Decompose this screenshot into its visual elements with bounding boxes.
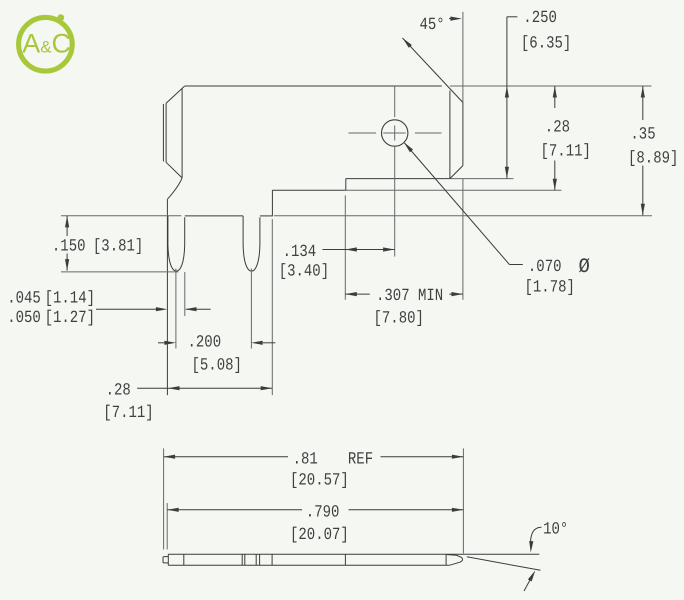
- right edge: [462, 103, 464, 166]
- left edge / .28 ext: [166, 199, 168, 395]
- svg-text:[7.11]: [7.11]: [541, 142, 591, 162]
- shoulder ext left (.150 top): [61, 215, 181, 217]
- .134 left arrow: [345, 247, 357, 251]
- hole leader arrow: [404, 142, 413, 152]
- hole centerline horizontal c: [415, 132, 442, 134]
- .045 right-point arrow: [156, 307, 168, 311]
- .35 dim lower: [642, 166, 644, 216]
- .28 right ext: [271, 219, 273, 395]
- side view tip bend line: [445, 554, 447, 565]
- .790 dim right seg: [349, 509, 464, 511]
- svg-text:.28: .28: [545, 118, 570, 138]
- svg-text:.81: .81: [293, 450, 318, 470]
- 45 arrow tail: [449, 18, 456, 20]
- hole centerline vertical a: [394, 86, 396, 117]
- .150 down arrow: [65, 259, 69, 271]
- .045 leader: [96, 308, 156, 310]
- top edge: [185, 85, 442, 87]
- right edge ext up: [462, 12, 464, 103]
- right bend line: [449, 91, 451, 178]
- right edge ext down: [462, 178, 464, 299]
- .81 dim right seg: [381, 456, 464, 458]
- leg 1 tapered prong: [168, 216, 185, 271]
- left S-curve neck: [167, 178, 182, 199]
- logo dot: [57, 14, 64, 21]
- side view bend line 6: [271, 554, 273, 565]
- svg-text:[3.81]: [3.81]: [93, 237, 143, 257]
- svg-text:.28: .28: [106, 381, 131, 401]
- 10deg angled line: [467, 557, 541, 571]
- svg-text:.250: .250: [523, 9, 557, 29]
- .045 second arrow tail: [186, 308, 211, 310]
- 10deg down arrow: [529, 541, 533, 553]
- .200 right-point arrow: [164, 341, 176, 345]
- .28t down arrow: [553, 179, 557, 191]
- step ext down: [344, 195, 346, 299]
- 10deg lower arrow tail: [524, 575, 533, 592]
- svg-text:.070: .070: [528, 257, 562, 277]
- top-left chamfer: [166, 86, 185, 103]
- side view bend line 7: [344, 554, 346, 565]
- svg-text:45°: 45°: [420, 15, 445, 35]
- side view bend line 2: [241, 554, 243, 565]
- .250 up arrow: [505, 86, 509, 98]
- svg-text:.045: .045: [7, 289, 41, 309]
- svg-text:[1.78]: [1.78]: [525, 278, 575, 298]
- hole centerline horizontal a: [348, 132, 376, 134]
- .28t up arrow: [553, 86, 557, 98]
- .790 right arrow: [452, 508, 464, 512]
- svg-text:[7.80]: [7.80]: [374, 309, 424, 329]
- .150 dim line lower: [66, 254, 68, 271]
- side view bottom edge: [168, 564, 449, 566]
- hole centerline vertical c: [394, 146, 396, 257]
- svg-text:[6.35]: [6.35]: [521, 34, 571, 54]
- svg-text:.134: .134: [283, 243, 317, 263]
- shoulder ext right (.35 bottom): [274, 215, 652, 217]
- .35 down arrow: [641, 204, 645, 216]
- side view left cap: [167, 554, 169, 565]
- svg-text:[7.11]: [7.11]: [103, 404, 153, 424]
- hole leader horizontal: [509, 264, 522, 266]
- side view bend line 5: [259, 554, 261, 565]
- logo A&C circle: [19, 17, 73, 71]
- .045 left-point arrow: [185, 307, 197, 311]
- svg-text:[20.57]: [20.57]: [290, 471, 349, 491]
- .150 up arrow: [65, 216, 69, 228]
- side view bend line 3: [244, 554, 246, 565]
- leg 2 tapered prong: [243, 216, 260, 271]
- corner vertical: [271, 190, 273, 216]
- leg1 slit ext: [175, 269, 177, 349]
- .307 left arrow: [345, 292, 357, 296]
- .200 right tail: [263, 342, 275, 344]
- .790 dim left seg: [167, 509, 302, 511]
- side view bend line 1: [183, 554, 185, 565]
- .307 right arrow: [451, 292, 463, 296]
- svg-text:.307 MIN: .307 MIN: [376, 287, 443, 307]
- left bend line: [181, 89, 183, 178]
- svg-text:[8.89]: [8.89]: [628, 149, 678, 169]
- 45 right-point arrow: [450, 17, 462, 21]
- hole circle: [382, 120, 408, 146]
- .307 right tail: [449, 293, 463, 295]
- .200 left-point arrow: [251, 341, 263, 345]
- 10deg leader curve: [530, 527, 541, 545]
- leg2 slit ext: [250, 269, 252, 349]
- tab bottom edge: [346, 178, 450, 180]
- .150 bottom ext: [61, 271, 178, 273]
- svg-text:[5.08]: [5.08]: [192, 356, 242, 376]
- 45-deg chamfer line: [403, 38, 463, 103]
- top edge extension right: [450, 85, 652, 87]
- .28t dim lower: [554, 161, 556, 191]
- svg-text:Ø: Ø: [579, 255, 590, 279]
- svg-text:.150: .150: [52, 237, 86, 257]
- side view pointed tip: [446, 555, 463, 566]
- .35 up arrow: [641, 86, 645, 98]
- side view left nub: [163, 557, 168, 563]
- left fold outer line: [162, 104, 164, 162]
- .28b leader+dim line: [137, 387, 272, 389]
- svg-text:.200: .200: [188, 333, 222, 353]
- .134 dim line: [323, 249, 395, 251]
- svg-text:[3.40]: [3.40]: [279, 262, 329, 282]
- .81 left arrow: [164, 455, 176, 459]
- .045 right ext: [184, 272, 186, 316]
- side view bend line 4: [255, 554, 257, 565]
- hole leader diagonal: [405, 143, 510, 265]
- bottom-left chamfer: [166, 162, 182, 178]
- .790 left arrow: [167, 508, 179, 512]
- .200 left tail: [158, 342, 165, 344]
- .81 right arrow: [452, 455, 464, 459]
- hole centerline horizontal b: [383, 132, 406, 134]
- svg-text:.790: .790: [306, 503, 340, 523]
- tab bottom ext right: [450, 178, 514, 180]
- left fold inner line: [165, 103, 167, 162]
- 10deg up arrow: [528, 570, 535, 581]
- svg-text:[20.07]: [20.07]: [290, 525, 349, 545]
- body bottom ext right: [346, 189, 562, 191]
- .250 down arrow: [505, 167, 509, 179]
- .250 elbow: [507, 16, 518, 18]
- hole centerline vertical b: [394, 125, 396, 140]
- .35 dim upper: [642, 86, 644, 120]
- svg-text:.35: .35: [630, 125, 655, 145]
- step vertical: [345, 179, 347, 191]
- svg-text:[1.14]: [1.14]: [45, 289, 95, 309]
- shoulder right of leg2: [260, 215, 273, 217]
- side view top edge + ext: [168, 553, 539, 555]
- body bottom edge: [272, 189, 345, 191]
- .81 dim left seg: [164, 456, 288, 458]
- .134 right arrow: [383, 247, 395, 251]
- svg-text:.050: .050: [7, 308, 41, 328]
- .307 left tail: [345, 293, 370, 295]
- svg-text:10°: 10°: [543, 520, 568, 540]
- shoulder between legs: [185, 215, 243, 217]
- .150 dim line upper: [66, 216, 68, 236]
- .28b right arrow: [261, 386, 273, 390]
- .790 left ext: [166, 503, 168, 550]
- svg-text:REF: REF: [348, 450, 373, 470]
- side right ext: [462, 448, 464, 553]
- 45 diag arrow: [403, 38, 412, 48]
- bottom-right chamfer: [450, 166, 463, 179]
- .81 left ext: [163, 448, 165, 549]
- .28t dim upper: [554, 86, 556, 108]
- svg-text:[1.27]: [1.27]: [45, 308, 95, 328]
- .28b left arrow: [168, 386, 180, 390]
- .250 dim vertical: [506, 17, 508, 179]
